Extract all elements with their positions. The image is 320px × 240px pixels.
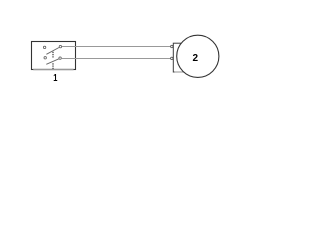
mechanical linkage (dotted, lower) — [52, 63, 54, 69]
switch pole b: left terminal — [44, 57, 46, 59]
component 2 terminal pin (bottom) — [171, 57, 173, 59]
component 2 terminal pin (top) — [171, 45, 173, 47]
switch pole b: right terminal — [59, 57, 61, 59]
block 1 bottom edge (gray shadow) — [33, 69, 73, 71]
wire: bottom cable line — [62, 58, 171, 60]
component 2 connector tab — [173, 43, 185, 72]
connector block 1 (switch unit body) — [32, 42, 76, 70]
switch pole a: left terminal — [43, 46, 45, 48]
switch pole a: right terminal — [59, 45, 61, 47]
switch pole a: lever — [46, 48, 59, 55]
connector tab bottom edge (gray) — [174, 71, 183, 73]
component 2 round body — [177, 35, 219, 77]
wire: top cable line — [62, 46, 171, 48]
switch pole b: lever — [46, 59, 59, 65]
svg-text:2: 2 — [193, 53, 199, 64]
svg-text:1: 1 — [53, 72, 57, 83]
mechanical linkage (dotted) — [52, 52, 54, 58]
